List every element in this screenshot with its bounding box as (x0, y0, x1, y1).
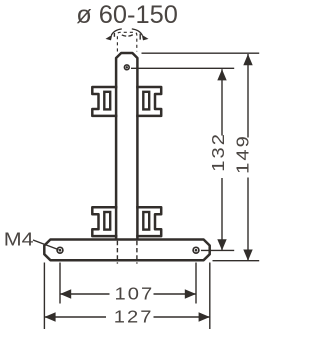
extension line below plate left edge (43, 263, 45, 330)
right plate hole center dot (195, 249, 198, 252)
bar top hole center dot (126, 66, 128, 68)
dimension line 149 (vertical) (247, 54, 249, 138)
left plate hole (57, 247, 63, 253)
upper left strap clip outline (92, 87, 117, 116)
dimension line 107 (horizontal) (60, 293, 110, 295)
bar top hole (124, 65, 129, 70)
extension line below left plate hole (59, 263, 61, 304)
svg-text:149: 149 (233, 134, 252, 174)
extension line from bar hole (131, 67, 234, 69)
M4 leader line (33, 240, 59, 250)
dashed strap sag arc inside (122, 35, 133, 37)
extension line from plate bottom right (213, 260, 260, 262)
hidden bar contour in plate: left dashed line (116, 241, 118, 264)
extension line below plate right edge (209, 263, 211, 330)
lower right strap clip outline (136, 207, 161, 236)
svg-text:M4: M4 (4, 230, 34, 250)
extension line from bar top (142, 52, 260, 54)
upper right clip slot (143, 92, 149, 110)
lower left strap clip outline (92, 207, 117, 236)
dashed pipe outline (hidden), rounded-corner top with sides (117, 32, 136, 51)
svg-text:107: 107 (114, 284, 154, 303)
strap-over-pole symbol: right curved arrow arc (132, 29, 143, 36)
lower left clip slot (104, 212, 110, 230)
vertical bar (upright) with chamfered top corners (116, 53, 137, 240)
strap symbol: left strap edge dash (113, 33, 115, 37)
upper right strap clip outline (136, 87, 161, 116)
left plate hole center dot (59, 249, 62, 252)
strap symbol: right arrowhead (142, 35, 149, 41)
dimension line 127 (horizontal) (44, 316, 106, 318)
strap-over-pole symbol: left curved arrow arc (111, 29, 122, 36)
hidden bar contour in plate: right dashed line (136, 241, 138, 264)
upper left clip slot (104, 92, 110, 110)
strap symbol: left arrowhead (106, 35, 113, 41)
extension line from right plate hole (201, 249, 234, 251)
svg-text:132: 132 (208, 132, 227, 172)
svg-text:127: 127 (114, 307, 154, 326)
strap symbol: right strap edge dash (139, 34, 141, 40)
right plate hole (193, 247, 199, 253)
extension line below right plate hole (195, 263, 197, 304)
base plate with chamfered corners (44, 240, 209, 261)
lower right clip slot (143, 212, 149, 230)
svg-text:ø 60-150: ø 60-150 (76, 1, 178, 29)
dimension line 132 (vertical) (221, 69, 223, 135)
